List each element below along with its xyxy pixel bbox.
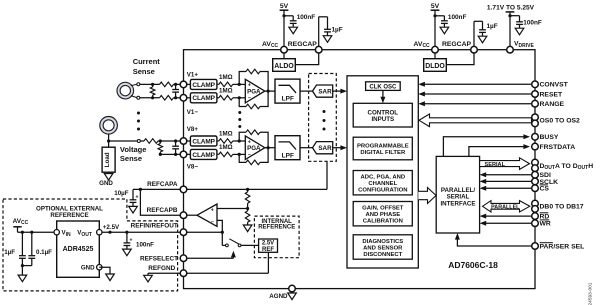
svg-text:1.71V TO 5.25V: 1.71V TO 5.25V xyxy=(487,4,535,11)
svg-text:+: + xyxy=(248,83,251,89)
svg-text:+: + xyxy=(211,207,214,213)
svg-text:AND SENSOR: AND SENSOR xyxy=(363,245,403,251)
svg-text:AND PHASE: AND PHASE xyxy=(365,212,400,218)
svg-text:+: + xyxy=(130,238,133,244)
svg-text:CLAMP: CLAMP xyxy=(192,138,215,145)
svg-text:INPUTS: INPUTS xyxy=(371,116,394,123)
svg-text:PARALLEL: PARALLEL xyxy=(491,204,520,210)
svg-text:1µF: 1µF xyxy=(487,23,498,30)
svg-text:10µF: 10µF xyxy=(114,190,128,197)
svg-text:ADC, PGA, AND: ADC, PGA, AND xyxy=(360,175,405,181)
svg-text:REFERENCE: REFERENCE xyxy=(50,212,88,219)
svg-text:CLAMP: CLAMP xyxy=(192,152,215,159)
svg-text:CLK OSC: CLK OSC xyxy=(369,84,397,90)
svg-text:V8−: V8− xyxy=(187,164,199,171)
svg-text:CONFIGURATION: CONFIGURATION xyxy=(358,188,407,194)
svg-text:GAIN, OFFSET: GAIN, OFFSET xyxy=(362,206,404,212)
svg-text:REFIN/REFOUT: REFIN/REFOUT xyxy=(131,222,178,229)
svg-text:WR: WR xyxy=(540,221,551,228)
svg-text:CLAMP: CLAMP xyxy=(192,82,215,89)
svg-text:REFGND: REFGND xyxy=(148,265,175,272)
svg-text:AGND: AGND xyxy=(269,293,288,300)
svg-text:INTERFACE: INTERFACE xyxy=(440,200,475,207)
svg-text:24593-001: 24593-001 xyxy=(588,282,594,305)
svg-text:PROGRAMMABLE: PROGRAMMABLE xyxy=(357,143,409,149)
svg-text:100nF: 100nF xyxy=(297,14,316,21)
svg-text:Current: Current xyxy=(133,57,161,66)
svg-text:100nF: 100nF xyxy=(448,14,467,21)
svg-text:Voltage: Voltage xyxy=(120,145,147,154)
svg-text:REFCAPB: REFCAPB xyxy=(147,207,178,214)
svg-text:REFSELECT: REFSELECT xyxy=(140,255,178,262)
svg-text:LPF: LPF xyxy=(282,96,294,103)
svg-text:Sense: Sense xyxy=(120,154,142,163)
svg-text:PGA: PGA xyxy=(247,88,261,95)
svg-text:DB0 TO DB17: DB0 TO DB17 xyxy=(540,204,584,211)
svg-text:ALDO: ALDO xyxy=(274,63,294,70)
svg-text:RANGE: RANGE xyxy=(540,101,565,108)
svg-text:−: − xyxy=(211,219,214,225)
svg-text:1MΩ: 1MΩ xyxy=(219,74,233,81)
svg-text:REGCAP: REGCAP xyxy=(288,41,318,48)
svg-text:CALIBRATION: CALIBRATION xyxy=(363,219,403,225)
svg-text:CHANNEL: CHANNEL xyxy=(368,181,397,187)
svg-text:REGCAP: REGCAP xyxy=(442,41,472,48)
svg-text:5V: 5V xyxy=(431,3,440,10)
svg-text:+: + xyxy=(136,194,139,200)
svg-text:100nF: 100nF xyxy=(523,19,542,26)
svg-text:GND: GND xyxy=(99,180,113,187)
svg-text:−: − xyxy=(248,96,251,102)
svg-text:V8+: V8+ xyxy=(187,126,199,133)
svg-text:FRSTDATA: FRSTDATA xyxy=(540,144,576,151)
svg-text:PGA: PGA xyxy=(247,145,261,152)
svg-text:GND: GND xyxy=(81,265,95,272)
svg-text:RESET: RESET xyxy=(540,91,564,98)
svg-text:AD7606C-18: AD7606C-18 xyxy=(448,260,498,270)
svg-text:SAR: SAR xyxy=(318,88,332,95)
svg-text:PAR/SER SEL: PAR/SER SEL xyxy=(540,243,585,250)
svg-text:1µF: 1µF xyxy=(4,249,15,256)
svg-text:REFCAPA: REFCAPA xyxy=(147,181,178,188)
svg-text:1MΩ: 1MΩ xyxy=(219,144,233,151)
svg-text:1MΩ: 1MΩ xyxy=(219,131,233,138)
svg-text:1MΩ: 1MΩ xyxy=(219,88,233,95)
svg-text:REFERENCE: REFERENCE xyxy=(258,225,295,231)
svg-text:DIGITAL FILTER: DIGITAL FILTER xyxy=(360,150,406,156)
svg-text:1µF: 1µF xyxy=(332,27,343,34)
svg-text:+: + xyxy=(248,139,251,145)
svg-text:CONVST: CONVST xyxy=(540,82,569,89)
svg-text:BUSY: BUSY xyxy=(540,134,559,141)
svg-text:V1+: V1+ xyxy=(187,72,199,79)
svg-text:REF: REF xyxy=(262,247,274,253)
svg-text:V1−: V1− xyxy=(187,109,199,116)
svg-text:DISCONNECT: DISCONNECT xyxy=(363,252,402,258)
svg-text:SERIAL: SERIAL xyxy=(485,162,506,168)
svg-text:DIAGNOSTICS: DIAGNOSTICS xyxy=(362,239,403,245)
svg-text:CS: CS xyxy=(540,186,550,193)
svg-text:−: − xyxy=(248,152,251,158)
svg-text:0.1µF: 0.1µF xyxy=(36,249,52,256)
svg-text:DLDO: DLDO xyxy=(425,63,445,70)
svg-text:OS0 TO OS2: OS0 TO OS2 xyxy=(540,118,581,125)
svg-text:ADR4525: ADR4525 xyxy=(63,246,94,253)
svg-text:5V: 5V xyxy=(280,3,289,10)
svg-text:+2.5V: +2.5V xyxy=(103,224,120,231)
svg-text:SAR: SAR xyxy=(318,145,332,152)
svg-text:100nF: 100nF xyxy=(136,241,154,248)
svg-text:CLAMP: CLAMP xyxy=(192,95,215,102)
svg-text:2.5V: 2.5V xyxy=(262,241,274,247)
svg-text:LPF: LPF xyxy=(282,152,294,159)
svg-text:Sense: Sense xyxy=(133,67,155,76)
svg-text:Load: Load xyxy=(104,152,111,167)
